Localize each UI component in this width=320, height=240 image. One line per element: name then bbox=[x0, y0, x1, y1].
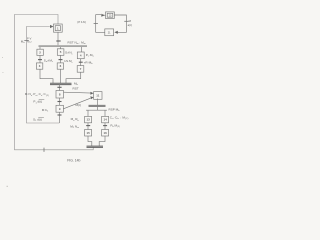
svg-text:15: 15 bbox=[86, 131, 90, 135]
svg-text:a(t): a(t) bbox=[128, 23, 132, 27]
svg-text:11: 11 bbox=[96, 94, 99, 98]
svg-text:16: 16 bbox=[103, 131, 107, 135]
svg-text:M(t): M(t) bbox=[76, 103, 82, 107]
svg-text:FIG. 14b: FIG. 14b bbox=[67, 159, 80, 163]
svg-text:RST Nm : Mm: RST Nm : Mm bbox=[68, 40, 86, 45]
svg-text:P1 d(t): P1 d(t) bbox=[33, 100, 42, 105]
svg-text:14: 14 bbox=[103, 118, 107, 122]
svg-text:(P∧N): (P∧N) bbox=[77, 20, 86, 24]
svg-text:M·Na·Pm·Ca·C(2): M·Na·Pm·Ca·C(2) bbox=[25, 92, 49, 97]
svg-text:13: 13 bbox=[86, 118, 90, 122]
svg-text:RST: RST bbox=[73, 86, 79, 90]
svg-text:S1 d(t): S1 d(t) bbox=[33, 118, 42, 123]
